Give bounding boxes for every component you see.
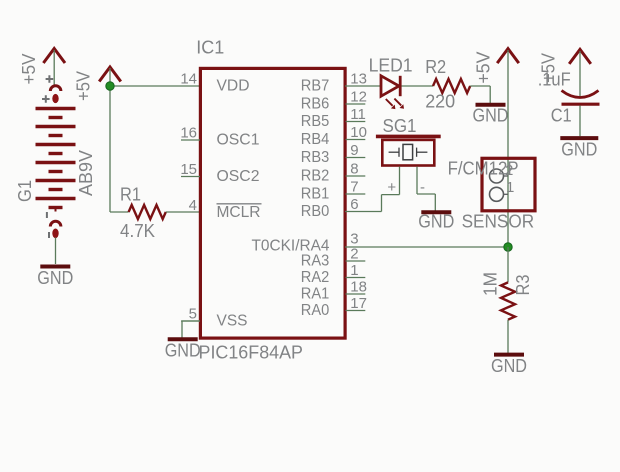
- capacitor C1: [562, 91, 600, 105]
- wire battery bottom: [55, 238, 57, 265]
- svg-text:+5V: +5V: [19, 54, 39, 85]
- pin 7 RB1 stub+number: [346, 179, 366, 196]
- svg-text:6: 6: [350, 196, 358, 213]
- svg-text:F/CM12P: F/CM12P: [448, 158, 519, 178]
- IC IC1 body (PIC16F84AP microcontroller): [200, 68, 345, 338]
- svg-text:GND: GND: [491, 356, 527, 376]
- svg-text:OSC2: OSC2: [217, 168, 260, 185]
- svg-text:4.7K: 4.7K: [120, 221, 155, 241]
- svg-text:C1: C1: [551, 106, 572, 126]
- svg-text:10: 10: [350, 124, 367, 141]
- label PIC16F84AP: [199, 343, 304, 363]
- power +5V symbol (battery): [19, 49, 65, 85]
- pin label OSC2: [217, 168, 260, 185]
- svg-text:VSS: VSS: [217, 313, 248, 330]
- power +5V symbol (sensor): [474, 49, 519, 84]
- svg-text:RA0: RA0: [301, 302, 330, 319]
- pin 5 VSS stub+number: [181, 306, 200, 323]
- pin label RB2: [301, 168, 330, 185]
- pin label OSC1: [217, 132, 260, 149]
- svg-text:+5V: +5V: [74, 71, 94, 101]
- svg-text:18: 18: [350, 279, 367, 296]
- pin 2 RA3 stub+number: [346, 246, 366, 263]
- junction node sensor/R3: [504, 243, 512, 251]
- pin 17 RA0 stub+number: [346, 295, 367, 312]
- pin label VDD: [217, 78, 250, 95]
- wire VSS pin 5: [182, 320, 200, 322]
- svg-text:16: 16: [180, 125, 197, 142]
- svg-text:RB2: RB2: [301, 168, 330, 185]
- wire R2 to GND corner: [470, 86, 490, 103]
- resistor R3: [501, 282, 515, 319]
- wire VDD net to pin 14: [110, 85, 200, 87]
- connector SENSOR (F/CM12P): [482, 158, 535, 211]
- label 220 value: [425, 92, 455, 112]
- svg-text:GND: GND: [165, 341, 201, 361]
- pin 6 RB0 stub+number: [350, 196, 358, 213]
- ground GND (SG1): [418, 212, 454, 232]
- label G1: [15, 180, 35, 202]
- resistor R2: [433, 79, 470, 93]
- svg-text:RA2: RA2: [301, 269, 330, 286]
- label R2: [425, 57, 446, 77]
- pin label RB1: [301, 186, 330, 203]
- pin label RB0: [301, 203, 330, 220]
- pin 3 T0CKI/RA4 stub+number: [350, 231, 358, 248]
- pin number 1 (sensor): [506, 179, 514, 196]
- wire junction to R3: [507, 247, 509, 282]
- svg-text:1M: 1M: [481, 272, 501, 296]
- ground GND (battery): [37, 267, 73, 289]
- label F/CM12P: [448, 158, 519, 178]
- label AB9V: [76, 150, 96, 196]
- pin label RB7: [301, 78, 330, 95]
- svg-text:LED1: LED1: [369, 56, 413, 76]
- wire LED to R2: [402, 85, 434, 87]
- wire battery top: [53, 50, 55, 85]
- pin label RB4: [301, 131, 330, 148]
- pin 9 RB3 stub+number: [346, 142, 366, 159]
- svg-text:5: 5: [189, 306, 197, 323]
- svg-text:GND: GND: [473, 106, 509, 126]
- svg-text:R1: R1: [120, 185, 141, 205]
- pin 10 RB4 stub+number: [346, 124, 367, 141]
- wire +5V arrow stem: [109, 68, 111, 86]
- wire pin3 to junction: [345, 246, 508, 248]
- pin label T0CKI/RA4: [252, 238, 330, 255]
- svg-text:14: 14: [180, 71, 197, 88]
- pin label RB3: [301, 149, 330, 166]
- label R3: [513, 275, 533, 296]
- svg-text:4: 4: [189, 197, 197, 214]
- svg-text:11: 11: [350, 106, 366, 123]
- pin label RA2: [301, 269, 330, 286]
- svg-text:220: 220: [425, 92, 455, 112]
- svg-text:SG1: SG1: [383, 116, 417, 136]
- svg-text:+: +: [387, 179, 396, 196]
- svg-text:RB0: RB0: [301, 203, 330, 220]
- svg-text:2: 2: [350, 246, 358, 263]
- pin label RA3: [301, 253, 330, 270]
- power +5V symbol (IC supply): [74, 67, 121, 101]
- wire to R1 left: [110, 211, 129, 213]
- label + (SG1 plus leg): [387, 179, 396, 196]
- pin label VSS: [217, 313, 248, 330]
- svg-text:1: 1: [350, 262, 358, 279]
- pin 15 OSC2 stub+number: [180, 161, 200, 178]
- label LED1: [369, 56, 413, 76]
- pin 11 RB5 stub+number: [346, 106, 366, 123]
- pin 1 RA2 stub+number: [346, 262, 366, 279]
- wire C1 top: [579, 51, 581, 97]
- pin label RB5: [301, 113, 330, 130]
- buzzer SG1: [376, 136, 441, 165]
- svg-text:IC1: IC1: [196, 38, 224, 58]
- svg-text:VDD: VDD: [217, 78, 250, 95]
- label IC1: [196, 38, 224, 58]
- pin 8 RB2 stub+number: [346, 161, 366, 178]
- svg-text:RB7: RB7: [301, 78, 330, 95]
- svg-text:.1uF: .1uF: [538, 70, 571, 90]
- svg-text:R3: R3: [513, 275, 533, 296]
- LED LED1: [381, 76, 404, 109]
- wire sensor supply vertical: [507, 50, 509, 247]
- pin label RA0: [301, 302, 330, 319]
- svg-text:17: 17: [350, 295, 367, 312]
- wire SG1 minus leg: [417, 167, 435, 211]
- svg-text:RB3: RB3: [301, 149, 330, 166]
- pin label RB6: [301, 96, 330, 113]
- ground GND (R3): [491, 355, 527, 376]
- svg-text:MCLR: MCLR: [217, 204, 261, 221]
- wire C1 bottom: [579, 106, 581, 137]
- svg-text:RB4: RB4: [301, 131, 330, 148]
- ground GND (VSS): [165, 339, 201, 360]
- svg-text:1: 1: [506, 179, 514, 196]
- svg-text:RA1: RA1: [301, 286, 330, 303]
- wire VSS down: [181, 321, 183, 339]
- label SENSOR: [462, 212, 535, 232]
- resistor R1: [129, 205, 166, 219]
- pin label MCLR: [217, 204, 262, 221]
- svg-text:GND: GND: [37, 268, 73, 288]
- svg-text:9: 9: [350, 142, 358, 159]
- svg-text:RB5: RB5: [301, 113, 330, 130]
- ground GND (R2): [473, 105, 509, 126]
- pin 14 VDD stub+number: [180, 71, 197, 88]
- svg-text:RB6: RB6: [301, 96, 330, 113]
- svg-text:AB9V: AB9V: [76, 150, 96, 196]
- svg-text:GND: GND: [561, 140, 597, 160]
- svg-text:RA3: RA3: [301, 253, 330, 270]
- pin 4 MCLR stub+number: [189, 197, 197, 214]
- svg-text:13: 13: [350, 71, 367, 88]
- label R1: [120, 185, 141, 205]
- svg-text:8: 8: [350, 161, 358, 178]
- power +5V symbol (C1): [539, 49, 591, 83]
- junction node VDD: [106, 82, 114, 90]
- wire pin13 to LED: [345, 85, 381, 87]
- pin 12 RB6 stub+number: [346, 89, 367, 106]
- pin 13 RB7 stub+number: [350, 71, 367, 88]
- svg-text:OSC1: OSC1: [217, 132, 260, 149]
- wire VDD net down to R1: [109, 86, 111, 212]
- ground GND (C1): [560, 138, 598, 159]
- label 1M value: [481, 272, 501, 296]
- svg-text:G1: G1: [15, 180, 35, 202]
- label .1uF value: [538, 70, 571, 90]
- pin label RA1: [301, 286, 330, 303]
- svg-text:12: 12: [350, 89, 367, 106]
- battery G1 (AB9V): [36, 75, 76, 238]
- pin 16 OSC1 stub+number: [180, 125, 200, 142]
- svg-text:SENSOR: SENSOR: [462, 212, 535, 232]
- label 4.7K value: [120, 221, 155, 241]
- pin number 2 (sensor): [505, 162, 513, 179]
- svg-text:+5V: +5V: [474, 52, 494, 84]
- svg-text:7: 7: [350, 179, 358, 196]
- wire R3 to ground: [507, 320, 509, 353]
- wire R1 to MCLR pin 4: [166, 211, 200, 213]
- wire SG1 plus leg: [345, 167, 400, 212]
- svg-text:R2: R2: [425, 57, 446, 77]
- svg-text:RB1: RB1: [301, 186, 330, 203]
- label SG1: [383, 116, 417, 136]
- svg-text:15: 15: [180, 161, 197, 178]
- pin 18 RA1 stub+number: [346, 279, 367, 296]
- label C1: [551, 106, 572, 126]
- svg-text:GND: GND: [418, 212, 454, 232]
- svg-text:PIC16F84AP: PIC16F84AP: [199, 343, 304, 363]
- label - (SG1 minus leg): [420, 179, 425, 196]
